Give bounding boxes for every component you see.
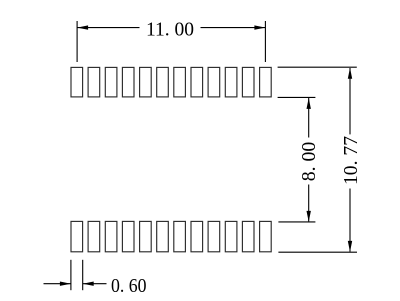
svg-text:11. 00: 11. 00: [146, 18, 194, 40]
svg-text:0. 60: 0. 60: [111, 275, 147, 297]
svg-text:10. 77: 10. 77: [340, 136, 362, 185]
svg-text:8. 00: 8. 00: [298, 142, 320, 182]
